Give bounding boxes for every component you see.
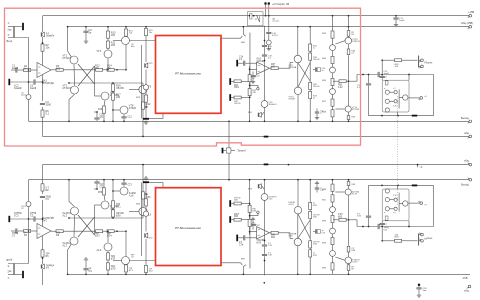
svg-text:Выход: Выход [461, 116, 469, 120]
svg-text:Вход: Вход [7, 40, 13, 43]
wire column x=42.5 [42, 16, 44, 136]
connector pin K2 [236, 60, 243, 67]
svg-text:Выход: Выход [461, 183, 469, 187]
capacitor C16 column x=264.5 [262, 26, 273, 55]
socket XS2 [248, 112, 264, 117]
wire base line y=83 [68, 82, 114, 84]
wire output column x=348.5 [348, 26, 350, 122]
transistor VT14 output [335, 106, 360, 112]
connector pin K4 [229, 94, 234, 101]
wire output to right [357, 74, 378, 82]
wire rail V- bus (y=121.3) [29, 120, 471, 122]
black fuse mark [412, 115, 417, 117]
diode VD2 [330, 67, 336, 73]
wire shielded feed band [249, 33, 251, 97]
wire phones feed [381, 59, 394, 74]
wire from PT box right to switch SA1 [221, 36, 242, 38]
resistor R19 [98, 106, 106, 122]
svg-text:VT3: VT3 [97, 50, 102, 53]
label A1 power module [273, 17, 280, 22]
svg-text:2кр: 2кр [8, 29, 12, 32]
svg-text:с 2: с 2 [393, 88, 396, 90]
capacitor C18 [250, 72, 260, 84]
svg-text:общ.: общ. [464, 158, 470, 162]
label output terminal [461, 116, 469, 120]
op-amp DA1 [37, 63, 54, 86]
wire block inner bus [390, 89, 399, 108]
capacitor C17a rail decoupling [393, 15, 404, 27]
capacitor C22 column x=368.5 [357, 75, 371, 116]
wire VT6 base [95, 84, 101, 96]
transistor VT2 [63, 85, 79, 95]
lamp HL1 [143, 85, 148, 90]
wire column x=146 with sensor chain [145, 36, 147, 119]
transistor VT13 output [335, 37, 360, 44]
resistor R11 [107, 41, 116, 48]
diode VD5 in block [393, 88, 397, 94]
resistor R10 [107, 31, 116, 38]
transistor VT8 [120, 105, 137, 115]
wire VT2 to V- rail [68, 94, 74, 122]
svg-text:+2v Напряж. ОВ: +2v Напряж. ОВ [272, 4, 290, 6]
connector pin input 2 [8, 79, 29, 90]
svg-text:R19: R19 [98, 109, 103, 111]
capacitor C20 electrolytic [261, 101, 277, 123]
resistor R22 [142, 102, 151, 137]
wire VT1-VT2 emitters [73, 64, 76, 85]
red highlight outer frame around top channel [5, 8, 361, 146]
terminal output rail right [468, 120, 472, 123]
wire rail +supply top (y=15.7) [43, 15, 471, 17]
svg-text:общ.: общ. [464, 131, 470, 135]
resistor R54 in block [385, 81, 388, 85]
svg-text:+U: +U [424, 96, 427, 98]
transistor VT16 in block [385, 99, 389, 103]
label common terminal [464, 131, 470, 135]
capacitor C4 [40, 101, 52, 107]
resistor R50 output [333, 80, 357, 89]
switch SA1 contact [241, 26, 246, 44]
wire to indicator terminal [409, 96, 428, 100]
capacitor C28 bottom decoupling [416, 284, 427, 298]
label bottom output [461, 183, 469, 187]
capacitor C1 input coupling [11, 65, 24, 73]
resistor R48a emitter [347, 49, 356, 55]
resistor R18 [309, 53, 320, 61]
capacitor C14 [239, 57, 257, 66]
wire rail +15V bus (y=26.7) [68, 26, 470, 28]
power pin + [264, 2, 266, 16]
wire to C18 tap [250, 85, 259, 90]
transistor VT10 [289, 87, 302, 101]
transistor VT17 in block [385, 108, 389, 112]
svg-text:Сф: Сф [420, 166, 423, 169]
terminal +15V [468, 14, 472, 17]
junction dots bottom mid rail [288, 164, 290, 166]
resistor R47 [322, 99, 334, 106]
transistor VT9 [289, 55, 302, 69]
capacitor C12 lower with ground [315, 109, 325, 120]
capacitor C5 electrolytic [21, 93, 31, 100]
op-amp DA2 [257, 58, 270, 75]
jack XS3 phones [419, 56, 434, 69]
feedback divider column x=249.6 [249, 66, 251, 122]
connector ground between channels [222, 148, 247, 154]
transistor VT4 current mirror [113, 37, 135, 70]
connector bead to PT box [145, 63, 154, 68]
red highlight box PT millivoltmeter bottom [156, 188, 222, 266]
svg-text:-15В: -15В [462, 276, 468, 280]
capacitor C2 [29, 79, 44, 90]
svg-text:С13: С13 [128, 117, 133, 119]
diode VD3 [330, 89, 336, 95]
resistor R35 [248, 89, 257, 96]
wire to op-amp inverting input [250, 68, 257, 70]
label bottom common [464, 158, 470, 162]
wire cross-coupling X1 [78, 64, 95, 84]
resistor R23 [309, 91, 318, 99]
wire shared ground drop x=229 [228, 120, 230, 150]
wire VAS resistor column x=310.2 [309, 26, 311, 122]
transistor VT3 [97, 50, 113, 58]
label power pins [272, 4, 290, 6]
svg-text:Phones: Phones [425, 63, 434, 65]
black mark on common rail [264, 136, 269, 138]
wire bottom rail -15V already mirrored; labels [462, 276, 468, 280]
connector pin K3 [229, 78, 234, 85]
resistor R49 emitter [347, 116, 356, 120]
resistor R1 [24, 65, 38, 72]
resistor R43 [322, 31, 334, 38]
resistor R31 [234, 80, 250, 89]
junction stub bottom [263, 282, 265, 284]
resistor R3 op-amp output [51, 65, 95, 71]
label +15V [468, 10, 474, 14]
wire rail common bus (y=136.4) [43, 135, 471, 137]
transistor VT5 cascode right [129, 83, 152, 102]
resistor R44 [322, 56, 334, 63]
wire cross-coupling X2 [78, 66, 95, 86]
wire VAS cross-coupling [298, 63, 310, 88]
wire block feed x=382.2 with capacitor C23 [380, 74, 389, 81]
transistor VT18 driver [399, 95, 408, 100]
svg-text:РТ Милливольтм.: РТ Милливольтм. [175, 226, 201, 230]
capacitor stub bottom mid rail [417, 164, 423, 169]
resistor R6 [41, 110, 50, 117]
capacitor C15 relay [266, 16, 278, 51]
resistor R33 [248, 75, 257, 82]
wire dotted channel divider x=397.7 [397, 96, 399, 151]
wire column x=108 [107, 26, 109, 70]
red highlight box PT millivoltmeter top [156, 36, 222, 114]
svg-text:+15В: +15В [468, 10, 474, 14]
junction to PT box bottom [145, 106, 147, 108]
wire y=83 extension to VT5 [113, 82, 143, 84]
connector XS1 input jack [7, 22, 29, 43]
transistor VT6 [101, 92, 119, 107]
diode VD1 [330, 45, 336, 51]
resistor R15 [309, 44, 318, 51]
transistor VT1 [63, 55, 79, 65]
label PT millivoltmeter bottom [175, 226, 201, 230]
wire VT4 to PT box left [130, 40, 156, 42]
resistor R13 [125, 26, 134, 36]
capacitor C21 zobel [378, 71, 433, 77]
capacitor C11 [94, 111, 104, 121]
resistor R2 [41, 42, 50, 51]
column x=113 resistors [112, 83, 125, 122]
resistor R12 R14 pair on y=69.8 [95, 65, 127, 72]
wire input shield to V- rail (x=28.5) [28, 38, 30, 122]
svg-text:РТ Милливольтм.: РТ Милливольтм. [175, 71, 201, 75]
wire VAS column x=297.8 [297, 26, 299, 122]
capacitor C13 VT8 emitter [121, 114, 132, 122]
transistor VT15 in block [384, 88, 389, 94]
svg-text:общ.(15В): общ.(15В) [461, 21, 473, 25]
resistor R46 collector [347, 31, 354, 37]
resistor R45 [322, 78, 334, 85]
mirrored bottom channel [7, 151, 472, 286]
svg-text:0,15: 0,15 [393, 106, 397, 108]
wire column x=141.7 [141, 45, 143, 119]
resistor R25 top of strip [145, 26, 154, 36]
resistor R24 [136, 95, 148, 102]
label common 15V [461, 21, 473, 25]
svg-text:"Земля": "Земля" [237, 150, 246, 153]
wire output top feed x=348.5 [348, 15, 350, 27]
wire from PT box bottom [149, 113, 163, 118]
power pin - [268, 2, 270, 16]
svg-text:общ.: общ. [464, 289, 470, 293]
diode VD6 in block [393, 100, 397, 108]
terminal bottom common 15V [464, 285, 471, 292]
resistor R20 [309, 82, 320, 89]
wire block bottom stub [397, 112, 399, 116]
capacitor C10 mid [313, 67, 326, 72]
terminal common rail right [468, 135, 472, 138]
relay K1 box [248, 12, 264, 26]
resistor R48 [322, 110, 334, 117]
inductor L1 ferrite bead [41, 32, 55, 38]
resistor R32 [234, 96, 250, 105]
terminal common 15V [468, 25, 472, 28]
capacitor C19 [262, 55, 273, 101]
resistor R53 phones [395, 59, 418, 68]
wire bottom protection line y=115.6 [369, 115, 434, 117]
black contact mark [143, 118, 149, 124]
capacitor C3 rail filter [83, 26, 92, 43]
block A2 protection outline [382, 80, 409, 112]
resistor R37 [270, 63, 294, 70]
wire ladder top feed x=332.5 [332, 15, 334, 27]
label PT millivoltmeter top [175, 71, 201, 75]
wire bias ladder column x=332.5 [332, 27, 334, 122]
wire VT1 collector feed [67, 26, 71, 57]
wire speaker feed down x=433.5 [433, 75, 435, 116]
wire block top stub [408, 74, 410, 81]
